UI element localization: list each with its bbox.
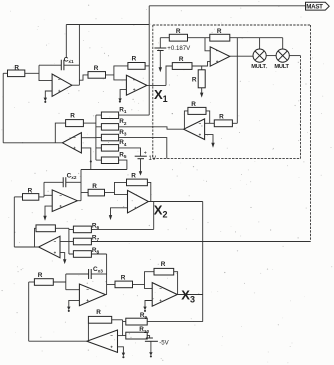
wire: U4 output to left bus [3, 142, 62, 144]
svg-text:R: R [92, 183, 97, 190]
wire: into integrator1 R [3, 72, 7, 74]
svg-text:MULT: MULT [251, 64, 266, 70]
ground: U10 plus input [143, 301, 152, 312]
resistor R (U7 feedback) [36, 225, 55, 232]
resistor R5 [96, 152, 127, 164]
wire: U11 output to left riser [29, 340, 87, 342]
ground: U5 plus input [205, 135, 215, 148]
ground: battery 1V [139, 171, 142, 175]
wire: riser to Cx1 top [65, 25, 67, 59]
ground: U8 plus input [109, 208, 128, 220]
ground: op-amp U1 plus input [44, 91, 53, 103]
wire: feedback riser x=237.3 [236, 38, 238, 124]
resistor R (between U1 and U2) [88, 65, 106, 78]
wire: U5 minus input [205, 122, 215, 124]
svg-text:MAST: MAST [306, 4, 323, 11]
resistor R (U8 feedback) [127, 172, 148, 185]
svg-text:R: R [161, 261, 166, 268]
wire: U11 feedback right to bus [112, 319, 123, 321]
resistor R (integrator3 input) [34, 272, 53, 285]
wire: taps into multiplier tops [260, 38, 283, 49]
resistor R (U3 feedback) [210, 28, 230, 41]
wire: U7 minus input [60, 241, 69, 243]
ground: U6 plus input [43, 206, 52, 221]
wire: X1 into divider R [166, 66, 172, 85]
wire: R to integrator2 summing node [39, 182, 52, 197]
svg-text:R: R [121, 275, 126, 282]
wire: U5 feedback right to minus [206, 111, 210, 123]
MAST flag [306, 2, 330, 10]
resistor R (0.187V input) [169, 28, 187, 41]
wire: U8 feedback to X2 node [147, 182, 150, 201]
wire: U5 input from riser [232, 122, 237, 124]
resistor R3 [96, 129, 167, 159]
resistor R (U4 feedback) [66, 113, 84, 127]
wire: X2 output [148, 201, 202, 203]
wire: U7 feedback right to bus [55, 227, 69, 229]
wire: U9 output branch [106, 284, 116, 294]
wire: U1 output to stage jog [72, 75, 88, 85]
ground: battery 0.187V [159, 67, 162, 72]
wire: top node to feedback [188, 37, 283, 39]
resistor R (divider to ground, vertical) [192, 66, 205, 93]
wire: minus tap of U3 [205, 38, 210, 51]
wire: summing input bus x=95.9 [95, 115, 97, 160]
resistor R (between U6 and U8) [88, 183, 104, 196]
svg-text:R: R [219, 113, 224, 120]
svg-text:R: R [28, 188, 33, 195]
wire: summing output left bus x=3.2 [2, 73, 4, 143]
wire: X1 tap to MAST [149, 5, 305, 7]
wire: R to U10 summing node [133, 272, 155, 289]
resistor R (U10 feedback) [154, 261, 174, 275]
wire: U6 output riser [77, 170, 88, 201]
battery -5V [145, 338, 170, 353]
resistor R (U2 feedback) [128, 56, 145, 70]
wire: R to U8 summing node [105, 182, 128, 194]
wire: U11 input bus x=122.6 [122, 320, 124, 336]
wire: R to integrator3 summing node [53, 274, 79, 290]
wire: U4 minus input [81, 137, 96, 139]
wire: U2 feedback to output bus [145, 65, 149, 67]
wire: R to integrator1 summing node [25, 65, 52, 80]
capacitor Cx1 [39, 57, 79, 71]
dashed subsystem box right edge [310, 25, 312, 242]
wire: divider node to plus input [192, 62, 210, 66]
op-amp U5 (inverter for cube term) [184, 119, 205, 140]
ground: U7 plus input [60, 253, 66, 265]
wire: U11 minus input [118, 335, 123, 337]
battery +1V [135, 151, 157, 172]
resistor R8 [69, 247, 107, 257]
resistor R10 [123, 326, 150, 339]
wire: X3 output [177, 294, 202, 296]
capacitor Cx2 [44, 173, 81, 188]
resistor R (U5 input) [214, 113, 232, 126]
capacitor Cx3 [66, 266, 107, 279]
node dot on plus loop [90, 160, 92, 162]
wire: U7 feedback left to output [35, 228, 37, 247]
op-amp U6 (integrator 2) [52, 190, 77, 212]
op-amp U2 (X1 driver) [126, 75, 146, 95]
wire: vertical X1 node bus x=150 [148, 6, 150, 115]
svg-text:R: R [96, 309, 101, 316]
wire: inverter U7 output up to integrator2 input [13, 197, 15, 247]
wire: R8/output riser x=106.6 [106, 254, 108, 295]
resistor R (U5 feedback) [188, 101, 206, 115]
svg-text:R: R [192, 76, 197, 83]
ground: op-amp U2 plus input [118, 90, 126, 103]
wire: integrator1 output riser x=79.4 [78, 25, 80, 86]
wire: U11 feedback left to output [87, 323, 89, 341]
resistor R9 [123, 312, 203, 325]
wire: U4 plus input loop [81, 148, 127, 170]
wire: multiplier output bus y=158.6 [153, 158, 301, 160]
wire: MULT1 to MULT2 [266, 55, 276, 57]
svg-text:1V: 1V [148, 155, 157, 162]
op-amp U4 (summing amplifier) [62, 133, 81, 153]
wire: X2 drop to R6 [153, 202, 155, 230]
svg-text:+0.187V: +0.187V [167, 45, 191, 52]
wire: MULT2 output [289, 55, 300, 57]
wire: U10 feedback to output [174, 272, 178, 295]
svg-text:R: R [191, 101, 196, 108]
wire: R to U2 summing node [106, 66, 128, 80]
resistor R2 [96, 118, 184, 130]
dashed subsystem box left edge [152, 25, 154, 159]
resistor R (U11 feedback) [88, 309, 111, 323]
wire: U7 input bus x=68.9 [68, 228, 70, 254]
resistor R1 [96, 107, 149, 119]
svg-text:R: R [94, 65, 99, 72]
wire: U5 feedback left to output [184, 111, 188, 129]
ground: divider resistor [200, 93, 203, 98]
wire: U4 feedback right to bus [83, 122, 96, 124]
wire: X1 output [147, 84, 166, 86]
svg-text:R: R [14, 65, 19, 72]
svg-text:R: R [38, 272, 43, 279]
resistor R (integrator2 input) [23, 188, 39, 201]
wire: U3 output to MULT1 [230, 55, 253, 57]
svg-text:-5V: -5V [159, 339, 169, 346]
resistor R4 [96, 139, 141, 156]
wire: U4 feedback left to output [55, 123, 65, 143]
op-amp U9 (integrator 3) [79, 284, 105, 306]
multiplier MULT1 [251, 49, 266, 70]
wire: U7 output to left riser [14, 246, 38, 248]
svg-text:R: R [131, 172, 136, 179]
ground: U9 plus input [67, 300, 79, 312]
resistor R (between U9 and U10) [115, 275, 133, 288]
resistor R6 [69, 222, 154, 232]
wire: X2 long drop x=202.7 [202, 202, 204, 322]
resistor R (X1 input to U3) [172, 56, 192, 70]
svg-text:R: R [132, 56, 137, 63]
multiplier MULT2 [274, 49, 289, 70]
wire: inverter row6 output up to integrator3 input [28, 282, 30, 341]
op-amp U11 (inverter row6) [87, 330, 118, 352]
op-amp U1 (integrator 1) [52, 74, 72, 96]
svg-text:MULT: MULT [274, 64, 289, 70]
svg-text:R: R [217, 28, 222, 35]
ground: battery -5V [149, 352, 152, 357]
wire: R7 long feedback bus y=241.5 [91, 241, 310, 243]
op-amp U7 (inverter row4) [39, 236, 60, 258]
resistor R7 [69, 235, 100, 245]
op-amp U3 (nonlinear block amp) [210, 47, 230, 66]
svg-text:R: R [179, 56, 184, 63]
dashed subsystem box top edge [153, 24, 311, 26]
wire: into integrator3 R [29, 281, 35, 283]
svg-text:+: + [144, 151, 147, 157]
op-amp U10 (X3 driver) [152, 283, 177, 307]
ground: U11 plus input [118, 347, 126, 358]
svg-text:R: R [70, 113, 75, 120]
battery +0.187V [154, 38, 191, 68]
svg-text:R: R [176, 28, 181, 35]
resistor R (integrator1 input) [8, 65, 25, 77]
op-amp U8 (X2 driver) [128, 190, 149, 213]
wire: into integrator2 R [14, 196, 22, 198]
wire: integrator1 output tap horizontal y=24.5 [66, 24, 149, 26]
wire: battery to R [160, 37, 169, 39]
wire: multiplier output drop x=300.5 [300, 56, 302, 159]
